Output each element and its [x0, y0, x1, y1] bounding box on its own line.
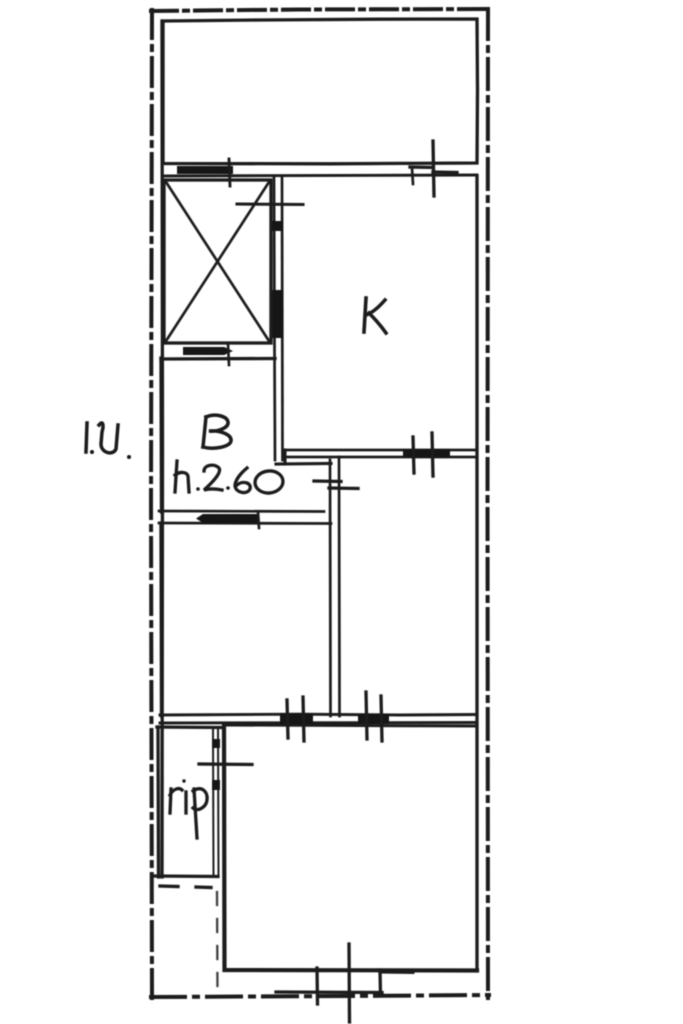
dark wall segment right of step	[381, 969, 412, 975]
label h.2,60	[175, 461, 284, 494]
corridor wall left line	[329, 460, 332, 716]
K bottom door tick 2	[432, 433, 433, 476]
label K	[364, 298, 386, 333]
boundary dash-dot bottom	[151, 995, 489, 997]
middle-left room left wall (reinforce)	[159, 523, 163, 716]
label I.U.	[86, 423, 131, 459]
shaft diagonal 1	[166, 182, 269, 341]
step left side / tick	[315, 968, 319, 1004]
label rip	[170, 779, 207, 838]
B bottom black bar	[203, 514, 258, 523]
tick below shaft bar	[228, 344, 229, 365]
shaft box with X	[164, 180, 271, 343]
rip bottom dash 2	[196, 885, 211, 889]
long bottom tick	[347, 944, 351, 1022]
bottom wall of middle rooms upper line	[160, 713, 477, 717]
tick across spine near K top	[237, 202, 303, 206]
tick at threshold right end	[229, 159, 230, 186]
big room bottom outer line	[276, 990, 382, 994]
wall line below top room (top of K row)	[163, 175, 477, 176]
K bottom door tick 1	[413, 437, 414, 473]
big room walls	[224, 725, 477, 971]
spine black fill upper	[273, 221, 283, 231]
door B tick 1	[366, 692, 367, 739]
tick at B bar right end	[258, 512, 259, 528]
label B	[203, 415, 231, 448]
corridor wall right line	[338, 457, 341, 716]
door A tick 2	[303, 697, 304, 741]
rip right wall line 1	[212, 727, 215, 877]
B bottom bar left arrow tip	[196, 514, 203, 523]
rip wall blob 2	[212, 780, 220, 790]
corridor door upper half-tick	[314, 479, 341, 483]
rip door tick	[199, 762, 252, 766]
door A tick 1	[287, 700, 288, 738]
dashed line below rip	[216, 892, 219, 993]
B room top wall	[161, 357, 275, 361]
rip closet top wall	[157, 725, 222, 729]
spine wall left line (between shaft/B and K)	[274, 176, 275, 460]
horizontal wall below B right part	[276, 462, 331, 466]
K bottom wall lower line	[284, 456, 477, 459]
rip bottom wall	[155, 874, 218, 878]
boundary dash-dot right	[486, 9, 491, 998]
B bottom wall upper line	[159, 510, 324, 513]
top room walls	[163, 19, 478, 164]
spine black fill lower	[273, 290, 283, 338]
corridor door lower half-tick	[329, 486, 358, 490]
threshold bar under shaft	[183, 347, 225, 355]
step right side	[378, 970, 382, 995]
K bottom door black bar	[403, 449, 450, 457]
door black bar B	[358, 714, 389, 724]
arrow tip of shaft bar	[224, 347, 233, 355]
door mark right half-tick	[433, 170, 457, 174]
B bottom wall lower line	[159, 522, 331, 525]
shaft diagonal 2	[166, 182, 269, 341]
small tick	[412, 168, 413, 184]
short vertical at K bottom-left	[283, 450, 286, 464]
right outer wall	[475, 176, 478, 970]
spine wall right line (K left wall)	[281, 176, 284, 460]
rip closet left wall	[156, 727, 160, 877]
rip right wall line 2	[217, 727, 220, 877]
bottom wall of middle rooms lower line	[160, 721, 477, 724]
boundary dash-dot top	[151, 9, 489, 11]
left outer wall	[160, 21, 164, 877]
big room top wall	[224, 725, 477, 726]
rip bottom dash 1	[160, 884, 178, 888]
rip wall blob 1	[212, 739, 220, 748]
door mark on top-room wall (long tick)	[433, 141, 434, 196]
door B tick 2	[381, 696, 382, 741]
door mark left half-tick	[410, 165, 433, 169]
boundary dash-dot left	[151, 10, 152, 999]
B room left wall	[159, 358, 163, 512]
door black bar A	[280, 714, 313, 724]
K bottom wall upper line	[284, 449, 477, 452]
threshold bar under top room	[177, 166, 233, 174]
